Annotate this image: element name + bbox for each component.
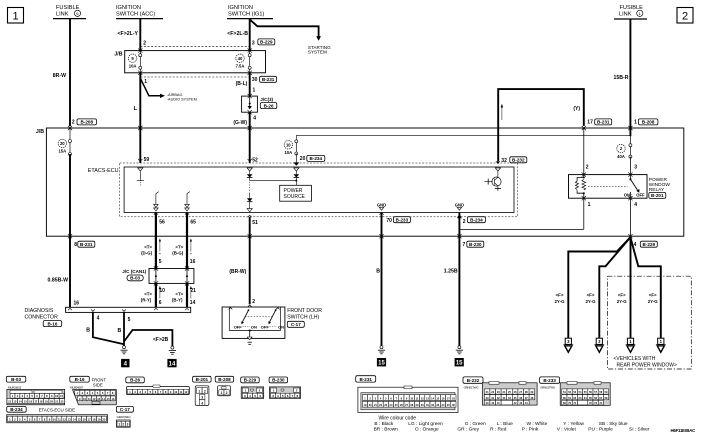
svg-text:ON: ON [624, 192, 630, 197]
svg-text:8: 8 [74, 242, 77, 248]
svg-text:1: 1 [220, 391, 222, 395]
svg-text:SOURCE: SOURCE [284, 194, 306, 200]
svg-text:B-233: B-233 [543, 378, 556, 383]
svg-text:14: 14 [169, 362, 176, 368]
svg-text:14: 14 [73, 417, 76, 421]
svg-text:B-232: B-232 [512, 158, 525, 163]
svg-text:17: 17 [34, 399, 37, 403]
svg-text:MU801615: MU801615 [8, 385, 22, 389]
svg-text:FRONT DOOR: FRONT DOOR [287, 308, 322, 314]
svg-text:2Y-G: 2Y-G [648, 299, 659, 304]
svg-text:DIAGNOSIS: DIAGNOSIS [25, 308, 54, 314]
svg-text:10: 10 [174, 390, 177, 394]
wire ACC fuse out, pin 1, L [139, 73, 141, 163]
svg-text:P : Pink: P : Pink [522, 427, 539, 433]
svg-text:10: 10 [286, 142, 291, 147]
svg-text:5: 5 [159, 259, 162, 265]
svg-text:22: 22 [61, 399, 64, 403]
svg-text:<VEHICLES WITH: <VEHICLES WITH [614, 356, 656, 362]
svg-text:7: 7 [463, 242, 466, 248]
svg-text:ON: ON [278, 324, 284, 329]
power source box [280, 185, 312, 201]
svg-text:J/B: J/B [114, 52, 122, 58]
svg-text:2: 2 [682, 11, 688, 23]
svg-text:3: 3 [252, 40, 255, 46]
svg-text:15B-R: 15B-R [614, 75, 629, 81]
svg-text:14: 14 [190, 300, 196, 306]
svg-text:B-229: B-229 [260, 40, 273, 45]
wire ACC 2L-Y [139, 19, 141, 51]
dashed link line pin2 to pin3 [140, 45, 249, 47]
svg-text:15: 15 [24, 399, 27, 403]
connector B-232 pinout [463, 377, 483, 383]
wire pin 32 up [497, 161, 499, 163]
svg-text:<F>2L-B: <F>2L-B [227, 31, 248, 37]
svg-text:B-232: B-232 [467, 378, 480, 383]
svg-text:B-26: B-26 [130, 378, 140, 383]
wire 8 B-231 0.85B-W [69, 154, 71, 307]
svg-text:1: 1 [634, 120, 637, 126]
twist indicator arrows [159, 241, 161, 252]
svg-text:OFF: OFF [234, 324, 243, 329]
internal bus from fusible link 1 to fuse 10 [296, 134, 630, 136]
svg-text:(G-W): (G-W) [233, 120, 247, 126]
svg-text:4: 4 [201, 401, 203, 405]
front door switch box C-17 [222, 307, 285, 338]
wire fusible link 1 (15B-R) [629, 19, 631, 136]
svg-text:H6F11E08AC: H6F11E08AC [671, 428, 696, 433]
connector B-03 pinout [6, 376, 26, 382]
connector B-208 pinout [215, 376, 234, 382]
svg-text:1: 1 [198, 390, 200, 394]
svg-text:B-230: B-230 [272, 378, 285, 383]
svg-text:OFF: OFF [261, 324, 270, 329]
svg-text:1: 1 [12, 11, 18, 23]
svg-text:B-231: B-231 [359, 377, 372, 382]
svg-text:2Y-G: 2Y-G [554, 299, 565, 304]
ground 4 [123, 346, 126, 349]
svg-text:B-234: B-234 [470, 217, 483, 222]
svg-text:40A: 40A [617, 154, 625, 159]
wire 1.25B to ground 15 [458, 213, 460, 346]
corner page number box 1 [8, 8, 24, 24]
svg-text:CONNECTOR: CONNECTOR [25, 314, 59, 320]
svg-text:12: 12 [184, 390, 187, 394]
relay pin4 output [629, 198, 631, 237]
svg-text:IGNITION: IGNITION [116, 5, 141, 11]
svg-text:G : Green: G : Green [465, 421, 486, 427]
svg-text:14: 14 [19, 399, 22, 403]
J/C(3) B-26 junction [242, 96, 258, 112]
connector arrows to rear power window [565, 338, 571, 344]
svg-text:4: 4 [97, 316, 100, 322]
svg-text:LINK: LINK [619, 11, 632, 17]
svg-text:2: 2 [143, 40, 146, 46]
svg-text:B-03: B-03 [130, 276, 140, 281]
svg-text:2: 2 [463, 219, 466, 225]
svg-text:21: 21 [190, 288, 196, 294]
svg-text:17: 17 [88, 417, 91, 421]
svg-text:20: 20 [300, 156, 306, 162]
svg-text:B-16: B-16 [75, 377, 85, 382]
svg-text:<F>: <F> [587, 293, 595, 298]
svg-text:B: B [118, 328, 122, 334]
svg-text:2: 2 [122, 423, 124, 427]
svg-text:15A: 15A [58, 149, 66, 154]
svg-text:1: 1 [118, 423, 120, 427]
svg-text:2: 2 [586, 164, 589, 170]
connector B-26 pinout [126, 377, 145, 383]
svg-text:IGNITION: IGNITION [228, 5, 253, 11]
svg-text:20: 20 [50, 399, 53, 403]
svg-text:18: 18 [40, 399, 43, 403]
connector B-229 pinout [241, 377, 260, 383]
ETACS inner solid box [124, 167, 514, 213]
svg-text:19: 19 [97, 417, 100, 421]
svg-text:3: 3 [127, 423, 129, 427]
svg-text:11: 11 [60, 394, 63, 398]
svg-text:4: 4 [253, 115, 256, 121]
svg-text:GRAY(SIG): GRAY(SIG) [117, 415, 131, 419]
svg-text:GND: GND [455, 203, 464, 208]
svg-text:MU804297: MU804297 [70, 385, 84, 389]
svg-text:W : White: W : White [527, 421, 548, 427]
svg-text:16: 16 [190, 259, 196, 265]
svg-text:LINK: LINK [56, 11, 69, 17]
svg-text:PU : Purple: PU : Purple [588, 427, 613, 433]
svg-text:J/B: J/B [36, 129, 44, 135]
connector B-16 pinout [70, 376, 90, 382]
svg-text:B-231: B-231 [262, 77, 275, 82]
svg-text:SWITCH (IG1): SWITCH (IG1) [228, 11, 264, 17]
fuse 9 10A [128, 54, 136, 62]
connector C-17 pinout [116, 406, 133, 412]
svg-text:16: 16 [29, 399, 32, 403]
wire ETACS 51 to door switch (BR-W) [249, 217, 251, 304]
svg-text:LG : Light green: LG : Light green [408, 421, 443, 427]
svg-text:ETACS-ECU: ETACS-ECU [88, 168, 119, 174]
svg-text:SIDE: SIDE [93, 382, 103, 387]
svg-text:GR : Grey: GR : Grey [457, 427, 479, 433]
svg-text:3: 3 [634, 164, 637, 170]
ETACS pin 52 w/ diode to power source [248, 159, 252, 161]
svg-text:B : Black: B : Black [374, 421, 394, 427]
svg-text:<F>2B: <F>2B [153, 337, 169, 343]
svg-text:18: 18 [93, 417, 96, 421]
svg-text:(R-Y): (R-Y) [141, 297, 152, 302]
svg-text:B-234: B-234 [310, 156, 323, 161]
connector B-230 pinout [269, 377, 288, 383]
svg-text:B-16: B-16 [47, 321, 57, 326]
svg-text:16: 16 [83, 417, 86, 421]
svg-text:OFF: OFF [636, 192, 645, 197]
svg-text:59: 59 [144, 157, 150, 163]
svg-text:16: 16 [74, 300, 80, 306]
svg-text:REAR POWER WINDOW>: REAR POWER WINDOW> [617, 362, 677, 368]
svg-text:(Y): (Y) [573, 106, 580, 112]
svg-text:11: 11 [88, 397, 91, 401]
svg-text:7.5A: 7.5A [236, 63, 245, 68]
svg-text::: : [631, 192, 632, 197]
svg-text:GND: GND [377, 203, 386, 208]
svg-text:J/C (CAN1): J/C (CAN1) [122, 269, 146, 274]
wire B to ground 15 [381, 213, 383, 346]
svg-text:17: 17 [587, 120, 593, 126]
svg-text:2: 2 [204, 390, 206, 394]
svg-text:<F>2L-Y: <F>2L-Y [118, 31, 139, 37]
svg-text:1.25B: 1.25B [444, 268, 458, 274]
svg-text:2Y-G: 2Y-G [585, 299, 596, 304]
svg-text:12: 12 [93, 397, 96, 401]
svg-text:(B-G): (B-G) [172, 250, 184, 255]
svg-text:0.85B-W: 0.85B-W [48, 278, 69, 284]
svg-text:R : Red: R : Red [490, 427, 507, 433]
svg-text:B-234: B-234 [10, 407, 23, 412]
branch arrow to airbag/audio [140, 78, 160, 96]
wire fan-out from 4 B-229 [630, 236, 632, 238]
svg-text:70: 70 [386, 218, 392, 224]
svg-text:19: 19 [45, 399, 48, 403]
svg-text:10A: 10A [129, 63, 137, 68]
svg-text:12: 12 [8, 399, 11, 403]
wire fusible link 6 to J/B (8R-W) [69, 19, 71, 127]
svg-text:8R-W: 8R-W [53, 73, 66, 79]
wire IG1 fuse out (B-L) pin 30 B-231 [249, 73, 251, 96]
ETACS pin 59 [138, 159, 142, 161]
wire IG1 2L-B [249, 19, 251, 51]
svg-text:32: 32 [501, 158, 507, 164]
svg-text:52: 52 [252, 158, 258, 164]
svg-text:40: 40 [238, 56, 243, 61]
svg-text:(B-L): (B-L) [236, 81, 248, 87]
svg-text:B-233: B-233 [396, 217, 409, 222]
wire (Y) from ETACS pin32 to 17 B-231 [498, 89, 584, 161]
connector B-231 pinout [356, 376, 376, 382]
diode chain to pin 51 [249, 182, 251, 192]
svg-text:<T>: <T> [144, 292, 152, 297]
svg-text:4: 4 [634, 202, 637, 208]
svg-text:20: 20 [60, 141, 65, 146]
svg-text:65: 65 [190, 219, 196, 225]
svg-text:C-17: C-17 [291, 322, 301, 327]
svg-text:10: 10 [53, 417, 56, 421]
relay switch [588, 185, 628, 187]
branch to starting system [250, 19, 319, 36]
corner page number box 2 [677, 8, 693, 24]
svg-text:15: 15 [378, 361, 385, 367]
svg-text:11: 11 [179, 390, 182, 394]
svg-text:56: 56 [159, 219, 165, 225]
fuse 40 7.5A [236, 54, 244, 62]
branch to ground 14, F2B [124, 330, 172, 346]
svg-text:21: 21 [55, 399, 58, 403]
vehicles with rear power window dash-dot box [607, 276, 691, 369]
svg-text:10: 10 [83, 397, 86, 401]
svg-text:30: 30 [252, 77, 258, 83]
svg-text:SI : Silver: SI : Silver [629, 427, 650, 433]
svg-text:15: 15 [456, 361, 463, 367]
svg-text:B-201: B-201 [651, 193, 664, 198]
svg-text:SYSTEM: SYSTEM [308, 50, 327, 55]
svg-text:<F>: <F> [618, 293, 626, 298]
svg-text:(D-G): (D-G) [141, 250, 153, 255]
svg-text:V : Violet: V : Violet [557, 427, 577, 433]
svg-text:B-03: B-03 [11, 377, 21, 382]
svg-text:13: 13 [13, 399, 16, 403]
svg-text:11: 11 [58, 417, 61, 421]
svg-text:3: 3 [201, 396, 203, 400]
svg-text:B-231: B-231 [597, 120, 610, 125]
svg-text:13: 13 [97, 397, 100, 401]
svg-text:<F>: <F> [556, 293, 564, 298]
svg-text:B-208: B-208 [218, 377, 231, 382]
svg-text:B-201: B-201 [196, 377, 209, 382]
svg-text:<F>: <F> [649, 293, 657, 298]
svg-text:GRN01TWG: GRN01TWG [464, 386, 480, 390]
svg-text:-AUDIO SYSTEM: -AUDIO SYSTEM [167, 97, 197, 101]
svg-text:14: 14 [102, 397, 105, 401]
svg-text:2: 2 [252, 299, 255, 305]
svg-text:<T>: <T> [175, 244, 183, 249]
svg-text:10: 10 [55, 394, 58, 398]
svg-text:10A: 10A [284, 150, 292, 155]
svg-text:SWITCH (ACC): SWITCH (ACC) [116, 11, 155, 17]
wire to relay pin 2 [583, 128, 585, 175]
svg-text:12: 12 [63, 417, 66, 421]
fuse 20 15A [58, 139, 66, 147]
svg-text:O : Orange: O : Orange [415, 427, 439, 433]
svg-text:Wire colour code: Wire colour code [379, 415, 417, 421]
svg-text:C-17: C-17 [120, 407, 130, 412]
connector B-201 pinout [193, 376, 212, 382]
connector B-233 pinout [540, 377, 560, 383]
svg-text:(BR-W): (BR-W) [229, 269, 246, 275]
svg-text:2: 2 [72, 120, 75, 126]
svg-text:2: 2 [226, 391, 228, 395]
ETACS pin 20 input w/ diode [294, 168, 299, 171]
svg-text:GRN01TWG: GRN01TWG [540, 386, 556, 390]
svg-text:ETACS-ECU SIDE: ETACS-ECU SIDE [39, 408, 76, 413]
power window relay box B-201 [569, 175, 648, 199]
svg-text:FUSIBLE: FUSIBLE [56, 5, 80, 11]
ETACS transistor and pin 32 [496, 161, 500, 163]
svg-text:SWITCH (LH): SWITCH (LH) [287, 315, 319, 321]
svg-text:L : Blue: L : Blue [497, 421, 513, 427]
svg-text:2Y-G: 2Y-G [617, 299, 628, 304]
ETACS pins 56 65 (CAN drivers) [156, 192, 159, 205]
ground 14 [171, 346, 174, 349]
svg-text:B: B [86, 328, 90, 334]
svg-text:15: 15 [78, 417, 81, 421]
switch blades [248, 309, 250, 311]
svg-text:B-229: B-229 [244, 378, 257, 383]
svg-text:1: 1 [588, 202, 591, 208]
svg-text:ON: ON [251, 324, 257, 329]
fuse 2 40A [617, 144, 625, 152]
relay coil [583, 175, 585, 178]
svg-text:J/C(3): J/C(3) [260, 97, 273, 102]
svg-text:6: 6 [159, 300, 162, 306]
svg-text:B-231: B-231 [80, 242, 93, 247]
svg-text:BR : Brown: BR : Brown [374, 427, 399, 433]
svg-text:1: 1 [253, 87, 256, 93]
svg-text:SB : Sky blue: SB : Sky blue [599, 421, 628, 427]
fuse 10 10A, 20 B-234 [284, 141, 292, 149]
svg-text:<T>: <T> [144, 244, 152, 249]
svg-text:20: 20 [102, 417, 105, 421]
svg-text:B-229: B-229 [643, 242, 656, 247]
svg-text:13: 13 [68, 417, 71, 421]
svg-text:15: 15 [107, 397, 110, 401]
svg-text:B-230: B-230 [469, 242, 482, 247]
svg-text:Y : Yellow: Y : Yellow [563, 421, 584, 427]
svg-text:B: B [376, 268, 380, 274]
svg-text:(B-Y): (B-Y) [172, 297, 183, 302]
direction arrow beside (Y) wire [501, 107, 503, 120]
svg-text:B-208: B-208 [80, 120, 93, 125]
CAN twisted pair wires 56/65 down [155, 213, 157, 269]
svg-text:<T>: <T> [175, 292, 183, 297]
wire (G-W) pin 4 [249, 112, 251, 163]
svg-text:10: 10 [159, 288, 165, 294]
connector B-234 pinout [7, 406, 27, 412]
svg-text:51: 51 [252, 220, 258, 226]
svg-text:B-26: B-26 [264, 103, 274, 108]
svg-text:B-208: B-208 [642, 120, 655, 125]
svg-text:16: 16 [112, 397, 115, 401]
svg-text:1: 1 [144, 79, 147, 85]
relay pin1 to ground bus [583, 198, 585, 229]
svg-text:5: 5 [128, 317, 131, 323]
CAN wires to diagnosis connector [155, 283, 157, 307]
